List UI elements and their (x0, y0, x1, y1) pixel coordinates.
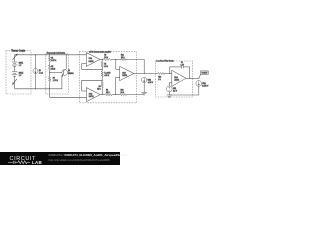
op-amp OA3 (120, 66, 134, 80)
wire OA3 +in (115, 78, 117, 95)
svg-text:LM741: LM741 (122, 75, 128, 77)
battery BAT1 (12, 61, 17, 63)
resistor R8 (105, 93, 112, 95)
wire OA3 out rail (134, 73, 158, 75)
wire between batteries (14, 67, 16, 72)
svg-text:10 k: 10 k (104, 57, 108, 59)
svg-text:5.078 V: 5.078 V (202, 86, 209, 88)
thermocouple arrow top (13, 54, 17, 60)
node minus-in tap (115, 59, 116, 60)
wire OA4 +in (169, 82, 172, 84)
node OA1 out (102, 59, 103, 60)
svg-text:4.99 k: 4.99 k (104, 75, 109, 77)
svg-text:2.5 V: 2.5 V (173, 91, 177, 93)
CircuitLab logo (7, 152, 53, 165)
wire feedback drop (143, 59, 145, 73)
wire battery column bottom (14, 76, 16, 89)
wire R10 to ground node (127, 94, 145, 96)
svg-text:BAT1: BAT1 (19, 62, 24, 65)
wire stack top (49, 55, 51, 57)
wire chain mid2 (101, 77, 103, 82)
svg-text:1 uF: 1 uF (181, 65, 185, 67)
svg-text:1.74 k: 1.74 k (53, 80, 59, 82)
wire to OA2 +in (50, 96, 87, 98)
node junction top rail / I1 (35, 54, 36, 55)
wire stack mid1 (49, 62, 51, 66)
svg-text:R5: R5 (104, 63, 107, 65)
footer watermark bar (0, 152, 120, 165)
node feedback2 (102, 80, 103, 81)
svg-text:-1.08 V: -1.08 V (148, 82, 154, 84)
node base tap (49, 72, 50, 73)
node stack top (49, 54, 50, 55)
resistor R3 (48, 77, 50, 82)
svg-text:10 k: 10 k (97, 89, 101, 91)
wire base (50, 71, 62, 73)
box Thermocouple Cold Junction (dashed) (46, 54, 69, 94)
svg-text:10 k: 10 k (106, 92, 110, 94)
svg-text:10 k: 10 k (104, 66, 108, 68)
node junction bottom rail / I1 (35, 88, 36, 89)
svg-text:Thermo Couple: Thermo Couple (11, 49, 26, 52)
resistor RGAIN (101, 71, 103, 76)
source VS2 (166, 86, 172, 92)
resistor R5 (101, 62, 103, 68)
wire stack bottom (49, 82, 51, 98)
footer text line 1 (49, 153, 128, 157)
resistor R10 (120, 94, 127, 96)
svg-text:10 k: 10 k (121, 57, 125, 59)
box Instrumentation Amplifier (dashed) (79, 52, 136, 103)
ground under VM2 (141, 91, 147, 93)
svg-text:VOUT: VOUT (202, 73, 209, 75)
wire R11 to feedback corner (126, 58, 144, 60)
wire OA1 +in feedback (82, 63, 87, 65)
svg-text:R9: R9 (104, 54, 107, 56)
resistor R2 (48, 65, 50, 70)
svg-text:R6: R6 (99, 86, 102, 88)
svg-text:VS2: VS2 (173, 88, 177, 90)
svg-text:2N3904: 2N3904 (68, 73, 74, 75)
node feedback join (189, 78, 190, 79)
current source I1 (33, 69, 38, 74)
svg-text:Low-Pass Filter Circuit: Low-Pass Filter Circuit (156, 59, 173, 62)
schematic canvas (0, 0, 220, 165)
svg-text:LM741: LM741 (174, 80, 180, 82)
resistor R11 (121, 58, 126, 60)
wire I1 bottom (35, 74, 37, 89)
transistor Q1 (62, 70, 68, 76)
svg-text:uA741 Instrumentation Amplifie: uA741 Instrumentation Amplifier (89, 51, 111, 54)
svg-text:R11: R11 (121, 54, 125, 56)
svg-text:LM741: LM741 (89, 61, 95, 63)
svg-text:Q1: Q1 (68, 70, 71, 72)
voltmeter VM1 (196, 81, 202, 87)
svg-text:I1: I1 (39, 70, 42, 72)
wire C1 feedback left (169, 67, 171, 74)
thermocouple arrow bottom (13, 79, 17, 84)
wire stack mid2 (49, 70, 51, 76)
svg-text:VM2: VM2 (148, 80, 152, 82)
wire OA3 -in (115, 59, 117, 69)
wire VM2 bottom (143, 83, 145, 93)
node VOUT tap (198, 78, 199, 79)
wire battery column top (14, 55, 16, 62)
svg-text:R8: R8 (106, 90, 109, 92)
resistor R12 (158, 73, 165, 75)
wire VM1 to ground rail (198, 86, 200, 95)
wire R8-R10 (112, 94, 120, 96)
node feedback/VM2 tap (144, 73, 145, 74)
resistor R9 (103, 58, 111, 60)
svg-text:R1: R1 (51, 57, 54, 59)
wire OA1 out (100, 58, 103, 60)
box Low-Pass Filter Circuit (dashed) (155, 61, 192, 97)
footer text line 2 (49, 158, 110, 162)
node feedback1 (102, 69, 103, 70)
resistor R1 (48, 57, 50, 62)
svg-text:1 V: 1 V (19, 65, 22, 67)
battery BAT2 (12, 71, 17, 73)
svg-text:R3: R3 (53, 77, 56, 79)
svg-text:1 k: 1 k (158, 79, 161, 81)
wire R12 to OA4 (165, 73, 172, 75)
resistor R6 (101, 81, 103, 87)
svg-text:Thermocouple Cold Junction: Thermocouple Cold Junction (47, 51, 66, 54)
wire C1 feedback right (183, 66, 189, 68)
wire Q1 collector (65, 55, 67, 69)
svg-text:C1: C1 (181, 62, 184, 64)
wire OA2 -in feedback (82, 90, 87, 92)
op-amp OA4 (172, 70, 186, 86)
svg-text:R12: R12 (158, 76, 162, 78)
wire OA2 out (100, 94, 105, 96)
node plus-in tap (115, 94, 116, 95)
ground under VS2 (167, 94, 173, 96)
svg-text:R_GAIN: R_GAIN (104, 71, 110, 74)
wire VS2 bottom (168, 92, 170, 95)
node OA2 out (102, 94, 103, 95)
svg-text:R10: R10 (121, 90, 125, 92)
svg-text:R2: R2 (51, 66, 54, 68)
wire R9-R11 (112, 58, 122, 60)
op-amp OA2 (86, 88, 100, 102)
capacitor C1 (180, 65, 182, 68)
svg-text:8.87 k: 8.87 k (51, 60, 57, 62)
wire Q1 emitter (61, 76, 63, 89)
svg-text:VM1: VM1 (202, 83, 206, 85)
wire chain mid1 (101, 67, 103, 71)
node collector / top rail (66, 54, 67, 55)
svg-text:86.6: 86.6 (51, 68, 56, 70)
node OA4 -in (169, 73, 170, 74)
wire top rail (15, 54, 87, 56)
wire OA4 out (186, 77, 199, 79)
svg-text:LM741: LM741 (89, 96, 95, 98)
svg-text:LAB: LAB (32, 160, 42, 165)
svg-text:1 mA: 1 mA (39, 72, 43, 75)
wire bottom rail (15, 88, 62, 90)
flag VOUT (201, 71, 209, 75)
wire I1 top (35, 55, 37, 69)
node stack / bottom rail (49, 88, 50, 89)
op-amp OA1 (86, 53, 100, 67)
resistor chain top (101, 59, 103, 61)
voltmeter VM2 (142, 77, 147, 82)
box Thermo Couple (dashed) (6, 51, 31, 94)
wire chain bottom (101, 88, 103, 95)
svg-text:10 k: 10 k (121, 92, 125, 94)
svg-text:1 V: 1 V (19, 75, 22, 77)
svg-text:BAT2: BAT2 (19, 71, 24, 74)
